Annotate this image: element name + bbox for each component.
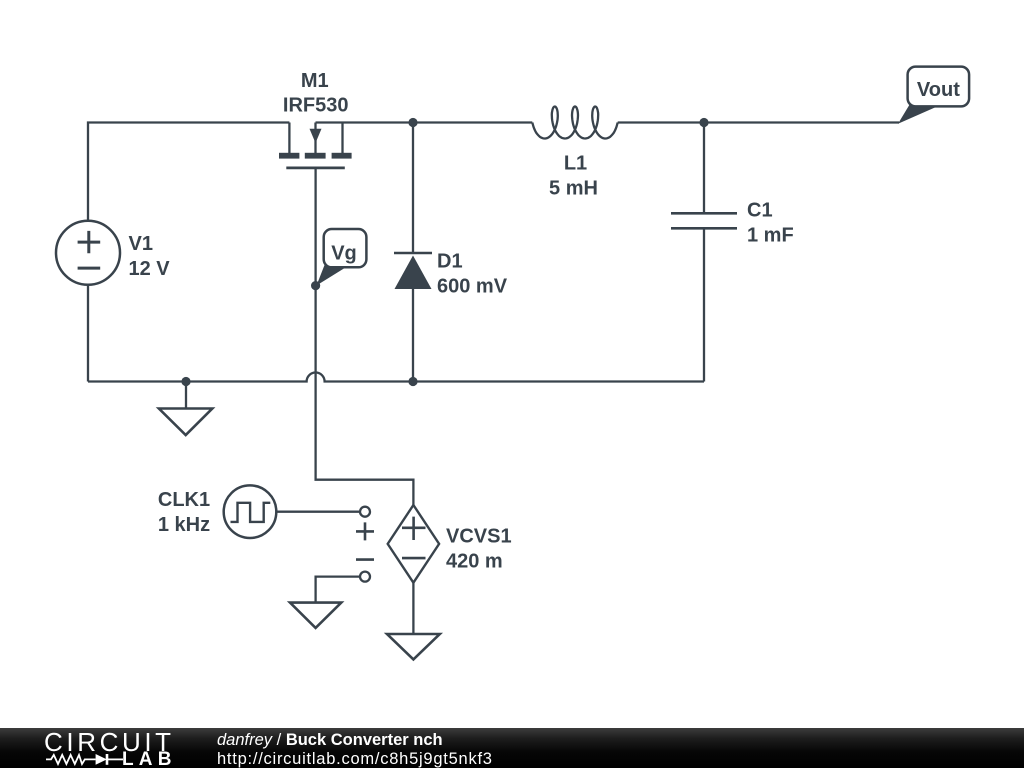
wire: C1 bottom to ground rail <box>703 228 705 381</box>
node flag Vg <box>317 229 367 286</box>
ground symbol below VCVS1 <box>387 634 440 659</box>
wire: switch node down through D1 to ground rail <box>412 123 414 382</box>
transistor M1 (NMOS IRF530) <box>279 123 352 168</box>
footer url text <box>217 750 493 769</box>
svg-text:M1: M1 <box>301 70 329 92</box>
svg-text:VCVS1: VCVS1 <box>446 526 512 548</box>
label D1 value 600 mV <box>437 276 508 298</box>
wire: CLK1 to VCVS1 control + terminal <box>276 511 360 513</box>
label V1 value 12 V <box>129 258 171 280</box>
wire: node to C1 top plate <box>703 123 705 214</box>
label C1 value 1 mF <box>747 225 794 247</box>
VCVS1 control + terminal (open circle) <box>360 507 370 517</box>
label L1 value 5 mH <box>549 178 598 200</box>
ground symbol below CLK1 <box>290 603 341 628</box>
label L1 <box>564 153 587 175</box>
svg-text:12 V: 12 V <box>129 258 171 280</box>
wire: ground rail with hop over gate wire <box>88 373 704 382</box>
wire: M1 gate down to VCVS1 + (crosses ground rail) <box>316 168 414 505</box>
wire: VCVS1 bottom to ground <box>412 583 414 634</box>
svg-text:C1: C1 <box>747 200 773 222</box>
svg-text:Vout: Vout <box>917 79 960 101</box>
label V1 <box>129 233 153 255</box>
svg-text:Vg: Vg <box>331 243 357 265</box>
node Vg junction dot <box>311 281 320 290</box>
svg-text:5 mH: 5 mH <box>549 178 598 200</box>
diode D1 <box>394 253 432 289</box>
ground symbol left <box>159 409 212 436</box>
svg-text:CLK1: CLK1 <box>158 489 210 511</box>
node flag Vout <box>898 67 969 124</box>
junction dot ground rail left <box>181 377 190 386</box>
svg-text:L1: L1 <box>564 153 587 175</box>
VCVS1 control plus sign <box>356 522 374 540</box>
dependent source VCVS1 (diamond) <box>388 505 439 583</box>
VCVS1 control minus sign <box>356 558 374 561</box>
svg-text:V1: V1 <box>129 233 153 255</box>
label CLK1 value 1 kHz <box>158 514 210 536</box>
junction dot at M1 source / D1 top <box>408 118 417 127</box>
svg-text:IRF530: IRF530 <box>283 95 349 117</box>
label C1 <box>747 200 773 222</box>
junction dot ground rail / D1 bottom <box>408 377 417 386</box>
footer title text <box>217 731 443 750</box>
label CLK1 <box>158 489 210 511</box>
label VCVS1 value 420 m <box>446 551 503 573</box>
wire: L1 to Vout node <box>618 121 899 123</box>
label M1 <box>301 70 329 92</box>
svg-text:600 mV: 600 mV <box>437 276 508 298</box>
capacitor C1 <box>671 213 737 228</box>
wire: V1 bottom to ground rail <box>87 285 89 382</box>
wire: M1 source to L1 (node Vsw top) <box>316 121 533 123</box>
svg-text:1 kHz: 1 kHz <box>158 514 210 536</box>
label VCVS1 <box>446 526 512 548</box>
svg-text:LAB: LAB <box>122 749 177 768</box>
label M1 value IRF530 <box>283 95 349 117</box>
footer bar <box>0 728 1024 768</box>
wire: V1 top to M1 drain <box>88 123 289 221</box>
wire: stub to ground symbol left <box>185 382 187 409</box>
svg-text:1 mF: 1 mF <box>747 225 794 247</box>
CircuitLab logo <box>40 728 220 768</box>
junction dot at L1/C1 node <box>699 118 708 127</box>
label D1 <box>437 251 463 273</box>
clock source CLK1 <box>224 485 277 538</box>
inductor L1 <box>532 107 617 139</box>
wire: control - terminal to ground <box>316 577 360 603</box>
svg-text:420 m: 420 m <box>446 551 503 573</box>
svg-text:D1: D1 <box>437 251 463 273</box>
VCVS1 control - terminal (open circle) <box>360 572 370 582</box>
voltage source V1 <box>56 221 120 285</box>
